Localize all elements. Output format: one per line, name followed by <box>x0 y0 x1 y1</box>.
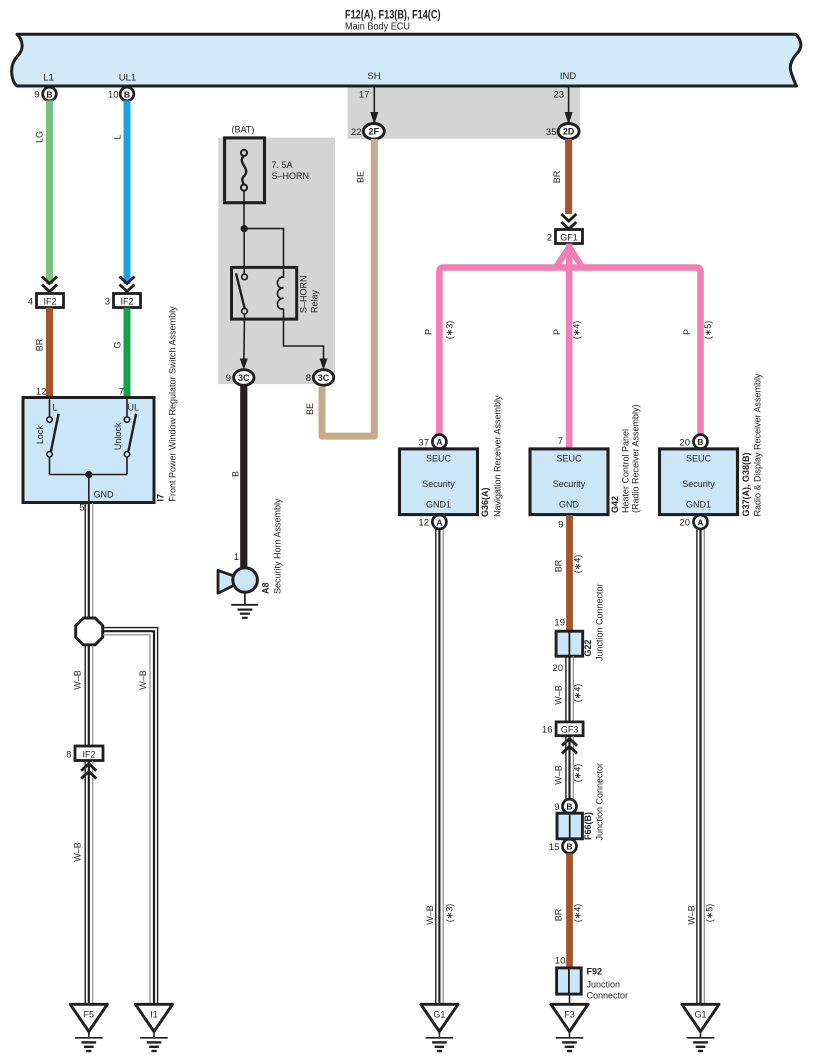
wire BR (IF2 to I7 pin12) <box>46 308 53 399</box>
chevron arrows above GF1 <box>561 214 576 229</box>
wire W-B (I7 pin5 to octagon junction) <box>85 503 92 617</box>
svg-text:S–HORN: S–HORN <box>299 275 309 313</box>
svg-text:P: P <box>424 329 434 335</box>
svg-text:BE: BE <box>305 403 315 415</box>
svg-text:BR: BR <box>552 170 562 183</box>
ground F3 <box>551 1004 588 1051</box>
svg-text:L: L <box>113 134 123 139</box>
wire node to relay switch <box>243 229 245 274</box>
S-HORN relay <box>232 267 320 319</box>
svg-text:19: 19 <box>554 618 565 629</box>
svg-text:W–B: W–B <box>425 905 435 925</box>
connector IF2 pin8 <box>75 746 103 761</box>
I7 lock switch <box>47 399 59 475</box>
wire fuse to junction node <box>243 191 245 229</box>
svg-text:F12(A), F13(B), F14(C): F12(A), F13(B), F14(C) <box>345 10 441 22</box>
svg-text:L1: L1 <box>43 73 54 84</box>
svg-text:(∗4): (∗4) <box>572 684 582 703</box>
svg-text:S–HORN: S–HORN <box>272 171 310 181</box>
svg-text:SEUC: SEUC <box>556 454 582 464</box>
svg-text:P: P <box>552 329 562 335</box>
svg-text:10: 10 <box>108 90 119 101</box>
svg-text:GND1: GND1 <box>686 500 711 510</box>
svg-text:Connector: Connector <box>587 991 629 1001</box>
connector IF2 pin3 <box>114 294 141 308</box>
chevron arrows above IF2 pin4 <box>42 277 57 292</box>
svg-text:9: 9 <box>226 373 231 384</box>
ground G1 right <box>682 1004 719 1051</box>
svg-text:B: B <box>46 89 52 99</box>
wire W-B (octagon to I1 ground, vertical run) <box>150 628 158 1004</box>
junction connector F92 <box>557 968 582 994</box>
connector GF3 pin16 <box>556 722 583 736</box>
svg-text:L: L <box>53 403 58 413</box>
svg-text:BR: BR <box>554 559 564 572</box>
svg-text:Lock: Lock <box>35 425 45 445</box>
wire W-B (G36 pin12 to G1 ground) <box>436 529 443 1004</box>
svg-text:20: 20 <box>552 663 563 674</box>
svg-text:IF2: IF2 <box>82 750 95 760</box>
svg-text:G37(A), G38(B): G37(A), G38(B) <box>741 452 751 516</box>
svg-text:G1: G1 <box>694 1010 706 1020</box>
connector GF1 pin2 <box>556 230 583 244</box>
svg-text:(∗4): (∗4) <box>572 321 582 340</box>
svg-text:(Radio Receiver Assembly): (Radio Receiver Assembly) <box>631 404 641 513</box>
wire LG (L1 to IF2) <box>46 101 53 285</box>
svg-text:3C: 3C <box>318 373 330 383</box>
svg-text:4: 4 <box>28 297 33 308</box>
svg-text:16: 16 <box>542 725 553 736</box>
wire W-B (G22 to GF3) <box>566 656 573 722</box>
wire BE (2F to 3C pin8) <box>322 139 374 436</box>
svg-text:(∗5): (∗5) <box>703 321 713 340</box>
svg-text:Unlock: Unlock <box>113 422 123 450</box>
svg-text:Relay: Relay <box>310 289 320 313</box>
wire relay switch to 3C pin9 <box>243 314 246 367</box>
wire W-B (octagon to IF2 pin8) <box>85 646 92 746</box>
svg-text:BR: BR <box>554 908 564 921</box>
svg-text:20: 20 <box>679 437 690 448</box>
security horn assembly A8 <box>218 568 258 618</box>
svg-text:W–B: W–B <box>687 905 697 925</box>
svg-text:(∗3): (∗3) <box>445 321 455 340</box>
svg-text:W–B: W–B <box>72 670 82 690</box>
wire BR (F66 pin15 to F92) <box>566 853 573 968</box>
svg-text:B: B <box>124 89 130 99</box>
wire W-B (GF3 to F66 pin9) <box>566 736 573 800</box>
svg-text:IND: IND <box>560 71 577 82</box>
svg-text:GF1: GF1 <box>560 233 578 243</box>
svg-text:UL1: UL1 <box>119 73 136 84</box>
shaded harness region (fuse and relay) <box>218 138 335 385</box>
wire B (3C pin9 to horn) <box>240 385 247 567</box>
connector 3C pin8 <box>313 370 333 386</box>
pin 9 connector B circle <box>43 87 57 101</box>
I7 unlock switch <box>124 399 136 475</box>
svg-text:G1: G1 <box>433 1010 445 1020</box>
wire P branch to G36 <box>439 268 700 435</box>
svg-text:BR: BR <box>35 338 45 351</box>
svg-text:7: 7 <box>558 436 563 447</box>
svg-text:3: 3 <box>105 297 110 308</box>
svg-text:(∗4): (∗4) <box>572 764 582 783</box>
connector 2D pin35 <box>558 124 579 140</box>
svg-text:Security Horn Assembly: Security Horn Assembly <box>273 498 283 594</box>
connector 2F pin22 <box>363 124 384 140</box>
Main Body ECU band F12(A), F13(B), F14(C) <box>12 34 801 86</box>
svg-text:(BAT): (BAT) <box>232 125 255 135</box>
svg-text:A: A <box>436 517 442 527</box>
svg-text:9: 9 <box>34 90 39 101</box>
wire P branch diagonals <box>556 247 583 268</box>
svg-text:B: B <box>566 842 572 852</box>
I7 common wire to GND <box>50 474 128 476</box>
wire node to relay coil <box>244 229 283 278</box>
connector A circle at G37 pin20 <box>694 515 708 529</box>
svg-text:F3: F3 <box>564 1010 575 1020</box>
svg-text:IF2: IF2 <box>120 297 133 307</box>
wire F92 to F3 ground <box>569 994 571 1004</box>
junction connector F66(B) <box>557 813 582 839</box>
svg-text:(∗4): (∗4) <box>572 904 582 923</box>
svg-text:I7: I7 <box>155 494 165 502</box>
connector 3C pin9 <box>234 370 254 386</box>
svg-text:Front Power Window Regulator S: Front Power Window Regulator Switch Asse… <box>167 306 177 502</box>
svg-text:GND1: GND1 <box>426 500 451 510</box>
wire relay coil to 3C pin8 <box>284 309 324 368</box>
svg-text:GND: GND <box>94 490 115 500</box>
svg-text:9: 9 <box>558 520 563 531</box>
connector A circle at G36 pin37 <box>432 435 446 449</box>
wire SH (ECU pin17 to 2F) <box>373 86 375 122</box>
svg-text:BE: BE <box>356 171 366 183</box>
svg-text:GND: GND <box>559 500 580 510</box>
svg-text:2D: 2D <box>563 127 575 137</box>
svg-text:Main Body ECU: Main Body ECU <box>345 21 410 33</box>
svg-text:G42: G42 <box>610 496 620 513</box>
svg-text:IF2: IF2 <box>43 297 56 307</box>
svg-text:A: A <box>436 437 442 447</box>
svg-text:W–B: W–B <box>72 842 82 862</box>
svg-text:Security: Security <box>682 479 715 489</box>
G37(A), G38(B) Radio and Display Receiver Assembly box <box>660 449 738 515</box>
svg-text:B: B <box>697 437 703 447</box>
svg-text:2: 2 <box>547 233 552 244</box>
svg-text:LG: LG <box>35 131 45 143</box>
svg-text:(∗4): (∗4) <box>572 555 582 574</box>
junction node in I7 <box>85 471 92 478</box>
connector B circle at G37 pin20 <box>694 435 708 449</box>
svg-text:20: 20 <box>679 518 690 529</box>
svg-text:W–B: W–B <box>554 685 564 705</box>
svg-text:12: 12 <box>36 387 47 398</box>
chevron arrows below GF3 <box>562 739 577 754</box>
svg-text:W–B: W–B <box>138 670 148 690</box>
chevron arrows below IF2 pin8 <box>81 764 96 779</box>
svg-text:2F: 2F <box>369 127 380 137</box>
junction node below fuse <box>241 225 248 232</box>
wire W-B (octagon to I1 ground, horizontal run) <box>103 628 158 635</box>
svg-text:F92: F92 <box>587 967 603 977</box>
svg-text:17: 17 <box>359 90 370 101</box>
svg-text:A8: A8 <box>261 582 271 594</box>
svg-text:GF3: GF3 <box>561 725 579 735</box>
svg-text:B: B <box>230 471 240 477</box>
svg-text:Heater Control Panel: Heater Control Panel <box>621 429 631 513</box>
svg-text:8: 8 <box>66 750 71 761</box>
wire W-B (G37 pin20 to G1 ground) <box>697 529 704 1004</box>
svg-text:G36(A): G36(A) <box>480 487 490 517</box>
wire L (UL1 to IF2) <box>124 101 131 285</box>
svg-text:5: 5 <box>79 503 84 514</box>
G36(A) Navigation Receiver Assembly box <box>400 449 478 515</box>
svg-text:B: B <box>566 802 572 812</box>
wire G (IF2 to I7 pin7) <box>124 308 131 399</box>
pin 10 connector B circle <box>120 87 134 101</box>
svg-text:3C: 3C <box>238 373 250 383</box>
svg-text:SEUC: SEUC <box>686 454 712 464</box>
svg-text:7. 5A: 7. 5A <box>272 160 293 170</box>
svg-text:Junction: Junction <box>587 980 621 990</box>
I7 Front Power Window Regulator Switch Assembly box <box>23 398 154 503</box>
connector A circle at G36 pin12 <box>432 515 446 529</box>
svg-text:SEUC: SEUC <box>426 454 452 464</box>
svg-text:15: 15 <box>549 842 560 853</box>
connector B circle at F66 pin15 <box>563 839 577 853</box>
svg-text:P: P <box>682 329 692 335</box>
wire W-B (IF2 pin8 to F5 ground) <box>85 761 92 1004</box>
svg-text:A: A <box>697 517 703 527</box>
wire IND (ECU pin23 to 2D) <box>568 86 570 122</box>
wire P trunk (GF1 down through branch) <box>566 244 573 450</box>
svg-text:7: 7 <box>119 387 124 398</box>
svg-text:G: G <box>113 341 123 348</box>
svg-text:F66(B): F66(B) <box>583 812 593 840</box>
svg-text:SH: SH <box>367 71 380 82</box>
svg-text:12: 12 <box>418 518 429 529</box>
svg-text:Security: Security <box>553 479 586 489</box>
svg-text:(∗5): (∗5) <box>705 904 715 923</box>
svg-text:1: 1 <box>234 552 239 563</box>
svg-text:23: 23 <box>553 90 564 101</box>
ground I1 <box>135 1004 172 1051</box>
svg-text:W–B: W–B <box>554 765 564 785</box>
junction connector G22 <box>556 631 583 656</box>
svg-text:Junction Connector: Junction Connector <box>595 583 605 661</box>
svg-text:37: 37 <box>418 437 429 448</box>
octagon junction J/C <box>76 618 103 645</box>
svg-text:10: 10 <box>555 956 566 967</box>
svg-text:Radio & Display Receiver Assem: Radio & Display Receiver Assembly <box>753 373 763 517</box>
chevron arrows above IF2 pin3 <box>120 277 135 292</box>
svg-text:F5: F5 <box>84 1010 95 1020</box>
connector IF2 pin4 <box>37 294 64 308</box>
svg-text:(∗3): (∗3) <box>445 904 455 923</box>
svg-text:G22: G22 <box>583 639 593 656</box>
fuse 7.5A S-HORN <box>225 125 309 203</box>
svg-text:I1: I1 <box>150 1010 158 1020</box>
svg-text:35: 35 <box>546 127 557 138</box>
ground G1 left <box>421 1004 458 1051</box>
svg-text:UL: UL <box>128 403 140 413</box>
svg-text:Security: Security <box>422 479 455 489</box>
svg-text:22: 22 <box>351 127 362 138</box>
shaded harness region (SH/IND connectors) <box>348 86 581 139</box>
svg-text:9: 9 <box>554 802 559 813</box>
svg-text:8: 8 <box>306 373 311 384</box>
connector B circle at F66 pin9 <box>563 799 577 813</box>
svg-text:Navigation Receiver Assembly: Navigation Receiver Assembly <box>493 395 503 517</box>
svg-text:Junction Connector: Junction Connector <box>595 763 605 841</box>
ground F5 <box>70 1004 107 1051</box>
wire BR (2D to GF1) <box>565 139 572 214</box>
